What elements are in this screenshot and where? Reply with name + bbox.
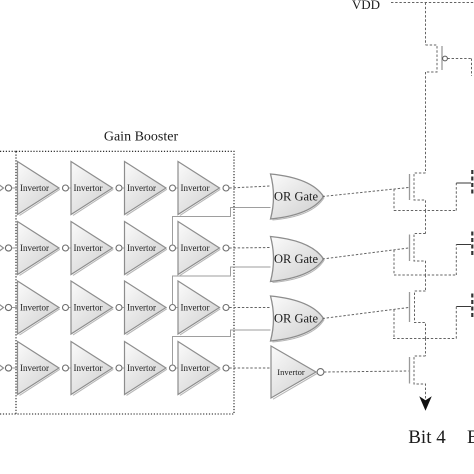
svg-text:Invertor: Invertor <box>127 243 156 253</box>
input terminal row 4 (cropped inverter tip) <box>0 360 4 376</box>
S1 gate bar (cropped) <box>471 170 473 196</box>
S1 gate lead <box>456 182 471 184</box>
wire Q1 source to Q2 drain <box>425 72 427 173</box>
wire row 4 seg 1 <box>69 367 71 369</box>
output bubble row 4 col 3 <box>170 365 176 371</box>
box bottom edge extension (cropped) <box>0 413 16 415</box>
Q3 gate bar <box>409 235 411 262</box>
wire G3 output to Q4 gate <box>323 308 409 319</box>
wire rail1 to Q3 <box>425 211 427 234</box>
inverter U5 (output buffer row 4) <box>271 346 316 398</box>
box top edge extension (cropped) <box>0 150 16 152</box>
output bubble row 4 col 1 <box>63 365 69 371</box>
svg-text:Gain Booster: Gain Booster <box>104 130 179 145</box>
output bubble row 1 col 2 <box>116 185 122 191</box>
output bubble row 3 col 3 <box>170 305 176 311</box>
output bubble row 4 col 4 <box>223 365 229 371</box>
output bubble row 1 col 4 <box>223 185 229 191</box>
transistor Q5 (NMOS) channel path <box>414 356 426 399</box>
output bubble row 3 col 2 <box>116 305 122 311</box>
svg-text:Invertor: Invertor <box>181 243 210 253</box>
transistor Q3 (NMOS) channel path <box>414 234 426 276</box>
svg-text:OR Gate: OR Gate <box>274 190 319 204</box>
wire row 3 seg 3 <box>176 307 178 309</box>
svg-text:Invertor: Invertor <box>127 363 156 373</box>
svg-text:Bit 4: Bit 4 <box>408 427 446 448</box>
Q4 gate bar <box>409 292 411 322</box>
wire U5 output to Q5 gate <box>324 371 409 372</box>
node rail 1 <box>394 210 456 212</box>
S3 gate bar (cropped) <box>471 294 473 320</box>
wire row 2 entry <box>12 247 18 249</box>
inverter row 3 col 1 <box>18 281 60 334</box>
svg-text:VDD: VDD <box>352 0 380 12</box>
OR gate G2 <box>271 237 324 282</box>
svg-text:Invertor: Invertor <box>74 183 103 193</box>
right cropped device S1 wire up <box>455 183 457 211</box>
output bubble row 4 col 2 <box>116 365 122 371</box>
svg-text:Invertor: Invertor <box>277 367 305 377</box>
svg-text:Invertor: Invertor <box>181 183 210 193</box>
output arrow (Bit 4) <box>420 397 431 410</box>
svg-text:Invertor: Invertor <box>20 243 49 253</box>
inverter row 2 col 3 <box>125 222 167 275</box>
Q1 gate bar <box>441 46 443 70</box>
branch wire to right device rail 2 <box>393 250 395 275</box>
wire row 3 seg 1 <box>69 307 71 309</box>
branch wire to right device rail 3 <box>393 309 395 338</box>
wire VDD to Q1 drain <box>425 3 427 46</box>
wire rail3 to Q5 <box>425 339 427 357</box>
output bubble row 1 col 1 <box>63 185 69 191</box>
transistor Q1 (PMOS) channel path <box>426 45 438 72</box>
input terminal row 2 (cropped inverter tip) <box>0 240 4 256</box>
VDD rail <box>391 2 474 4</box>
output bubble row 1 col 3 <box>170 185 176 191</box>
output bubble row 3 col 4 <box>223 305 229 311</box>
output bubble row 2 col 4 <box>223 245 229 251</box>
wire row 1 seg 1 <box>69 187 71 189</box>
inverter row 1 col 2 <box>71 162 113 215</box>
wire row4 out to U5 <box>229 367 271 369</box>
right cropped device S3 wire up <box>455 307 457 339</box>
output bubble row 2 col 1 <box>63 245 69 251</box>
svg-text:OR Gate: OR Gate <box>274 312 319 326</box>
svg-text:OR Gate: OR Gate <box>274 252 319 266</box>
tap wire to G2 second input <box>173 267 271 304</box>
input terminal row 3 (cropped inverter tip) <box>0 300 4 316</box>
svg-text:Invertor: Invertor <box>181 303 210 313</box>
bubble U5 <box>317 369 324 376</box>
svg-text:Invertor: Invertor <box>74 363 103 373</box>
svg-text:Invertor: Invertor <box>127 303 156 313</box>
wire row2 out to G2 <box>229 247 270 250</box>
svg-text:Invertor: Invertor <box>20 363 49 373</box>
inverter row 4 col 4 <box>178 342 220 395</box>
inverter row 1 col 1 <box>18 162 60 215</box>
wire row 3 entry <box>12 307 18 309</box>
input terminal row 1 (cropped inverter tip) <box>0 180 4 196</box>
svg-text:Invertor: Invertor <box>74 303 103 313</box>
inverter row 3 col 3 <box>125 281 167 334</box>
wire row1 out to G1 <box>229 186 270 188</box>
output bubble row 2 col 3 <box>170 245 176 251</box>
OR gate G1 <box>271 174 324 219</box>
wire Q1 gate <box>447 58 471 60</box>
wire row 2 seg 1 <box>69 247 71 249</box>
tap wire to G1 second input <box>173 208 271 245</box>
right cropped device S2 wire up <box>455 245 457 276</box>
wire row 1 entry <box>12 187 18 189</box>
branch wire to right device rail 1 <box>393 189 395 210</box>
svg-text:Invertor: Invertor <box>20 183 49 193</box>
wire G1 output to Q2 gate <box>323 188 409 197</box>
inverter row 1 col 3 <box>125 162 167 215</box>
svg-text:B: B <box>467 427 474 448</box>
tap wire to G3 second input <box>173 330 271 365</box>
inverter row 1 col 4 <box>178 162 220 215</box>
node rail 3 <box>393 338 456 340</box>
gain booster dashed box <box>16 151 234 414</box>
wire rail2 to Q4 <box>425 275 427 291</box>
Q5 gate bar <box>409 357 411 384</box>
output bubble row 3 col 1 <box>63 305 69 311</box>
OR gate G3 <box>271 296 324 341</box>
svg-text:Invertor: Invertor <box>181 363 210 373</box>
wire row 4 seg 3 <box>176 367 178 369</box>
wire row3 out to G3 <box>229 307 270 309</box>
inverter row 4 col 3 <box>125 342 167 395</box>
inverter row 3 col 2 <box>71 281 113 334</box>
inverter row 2 col 1 <box>18 222 60 275</box>
wire G2 output to Q3 gate <box>323 248 409 259</box>
inverter row 3 col 4 <box>178 281 220 334</box>
transistor Q2 (NMOS) channel path <box>414 173 426 211</box>
inverter row 2 col 4 <box>178 222 220 275</box>
Q2 gate bar <box>409 174 411 200</box>
output bubble row 2 col 2 <box>116 245 122 251</box>
Q1 gate bubble <box>443 56 448 61</box>
wire row 1 seg 2 <box>122 187 124 189</box>
wire row 1 seg 3 <box>176 187 178 189</box>
svg-text:Invertor: Invertor <box>20 303 49 313</box>
S2 gate bar (cropped) <box>471 232 473 258</box>
svg-text:Invertor: Invertor <box>74 243 103 253</box>
wire row 4 entry <box>12 367 18 369</box>
node rail 2 <box>394 274 456 276</box>
inverter row 4 col 1 <box>18 342 60 395</box>
wire row 3 seg 2 <box>122 307 124 309</box>
wire row 2 seg 2 <box>122 247 124 249</box>
inverter row 2 col 2 <box>71 222 113 275</box>
svg-text:Invertor: Invertor <box>127 183 156 193</box>
S3 gate lead <box>456 306 471 308</box>
S2 gate lead <box>456 244 471 246</box>
transistor Q4 (NMOS) channel path <box>415 291 426 339</box>
wire row 2 seg 3 <box>176 247 178 249</box>
inverter row 4 col 2 <box>71 342 113 395</box>
wire row 4 seg 2 <box>122 367 124 369</box>
